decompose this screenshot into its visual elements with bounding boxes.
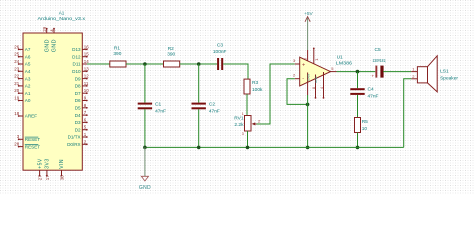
svg-text:47nF: 47nF (155, 108, 166, 114)
wire R1 to R2 (126, 63, 164, 65)
A1 left pin names (25, 47, 41, 149)
svg-text:47nF: 47nF (209, 108, 220, 114)
svg-text:1: 1 (242, 112, 244, 116)
svg-text:D9: D9 (75, 76, 81, 81)
wire R3 to RV1 (246, 94, 248, 116)
svg-text:RV1: RV1 (234, 115, 244, 121)
svg-text:18: 18 (14, 111, 19, 116)
svg-text:12: 12 (84, 74, 89, 79)
capacitor C3 (213, 42, 227, 70)
svg-text:390: 390 (113, 51, 121, 57)
svg-text:U1: U1 (337, 54, 343, 60)
wire D11 to R1 (87, 63, 110, 65)
svg-text:30: 30 (59, 175, 64, 180)
A1 left pins A7-A0, AREF, RESET, RESET (19, 49, 24, 146)
junction node R5/rail (356, 146, 360, 150)
svg-text:A6: A6 (25, 54, 31, 59)
junction node output/C4/C5 (356, 70, 360, 74)
svg-text:1: 1 (315, 59, 319, 61)
svg-text:D10: D10 (72, 69, 81, 74)
svg-text:10: 10 (362, 126, 368, 132)
svg-text:C2: C2 (209, 102, 215, 108)
svg-text:A0: A0 (25, 98, 31, 103)
svg-text:A1: A1 (59, 10, 65, 15)
svg-text:11: 11 (84, 81, 89, 86)
svg-text:47nF: 47nF (368, 93, 379, 99)
svg-text:LM386: LM386 (336, 60, 353, 66)
speaker LS1 (411, 56, 458, 92)
svg-text:28: 28 (14, 142, 19, 147)
wire ground rail (145, 146, 404, 148)
wire op-amp ground pin to rail (307, 95, 309, 147)
svg-text:D2: D2 (75, 127, 81, 132)
svg-text:D5: D5 (75, 106, 81, 111)
svg-text:RESET: RESET (25, 144, 41, 149)
ground symbol GND (139, 147, 151, 191)
svg-text:GND: GND (314, 76, 318, 84)
svg-text:D8: D8 (75, 84, 81, 89)
svg-text:RESET: RESET (25, 137, 41, 142)
svg-text:A7: A7 (25, 47, 31, 52)
IC A1 Arduino_Nano_v3.x (14, 10, 89, 180)
svg-text:8: 8 (312, 87, 316, 89)
svg-text:29: 29 (42, 26, 47, 31)
wire R5 to rail (357, 133, 359, 148)
capacitor C4 (350, 72, 378, 100)
svg-text:A2: A2 (25, 84, 31, 89)
svg-text:D4: D4 (75, 113, 81, 118)
svg-text:21: 21 (14, 81, 19, 86)
svg-text:Arduino_Nano_v3.x: Arduino_Nano_v3.x (38, 16, 86, 21)
svg-text:R3: R3 (252, 80, 258, 86)
capacitor C1 (138, 64, 166, 147)
capacitor C2 (192, 64, 220, 147)
resistor R2 (164, 46, 180, 67)
svg-text:100nF: 100nF (213, 49, 227, 55)
svg-text:A5: A5 (25, 62, 31, 67)
A1 right pin numbers (84, 44, 89, 144)
svg-text:R2: R2 (168, 46, 174, 52)
svg-text:D7: D7 (75, 91, 81, 96)
svg-text:+: + (372, 74, 375, 79)
power symbol +5V (304, 11, 313, 50)
junction node gnd line / rail (306, 146, 310, 150)
svg-text:C1: C1 (155, 102, 161, 108)
svg-text:D13: D13 (72, 47, 81, 52)
svg-text:15: 15 (84, 52, 89, 57)
svg-text:A4: A4 (25, 69, 31, 74)
svg-text:A3: A3 (25, 76, 31, 81)
svg-text:C3: C3 (217, 42, 223, 48)
svg-text:+5V: +5V (304, 11, 313, 17)
svg-text:16: 16 (84, 44, 89, 49)
svg-text:13: 13 (84, 66, 89, 71)
resistor R3 (244, 79, 263, 94)
svg-text:D3: D3 (75, 120, 81, 125)
junction node inverting loop / gnd line (306, 103, 310, 107)
svg-text:GND: GND (52, 39, 58, 52)
resistor R1 (110, 45, 126, 67)
wire speaker pin2 to ground rail (404, 79, 412, 148)
svg-text:VIN: VIN (59, 159, 65, 169)
wire RV1 wiper to op-amp + input (257, 64, 295, 124)
svg-text:390: 390 (167, 52, 175, 58)
svg-text:2.2k: 2.2k (234, 122, 244, 128)
resistor R5 (355, 118, 369, 133)
svg-text:R1: R1 (114, 45, 120, 51)
junction node RV1/rail (246, 146, 250, 150)
svg-text:+: + (302, 63, 305, 69)
svg-text:4: 4 (320, 87, 324, 89)
A1 right pins D13-D0/RX (82, 49, 87, 144)
svg-text:22: 22 (14, 74, 19, 79)
svg-text:24: 24 (14, 59, 19, 64)
svg-text:25: 25 (14, 52, 19, 57)
A1 top pins GND GND (47, 29, 54, 34)
A1 bottom pins +5V 3V3 VIN (40, 170, 62, 176)
svg-text:C4: C4 (368, 87, 374, 93)
svg-text:D0/RX: D0/RX (67, 142, 81, 147)
wire C5 to speaker (383, 71, 411, 73)
junction node R2/C3/C2 (197, 62, 201, 66)
junction node C1/rail/GND (143, 146, 147, 150)
wire C4 to R5 (357, 95, 359, 118)
svg-text:D6: D6 (75, 98, 81, 103)
svg-text:10: 10 (84, 88, 89, 93)
svg-text:D1/TX: D1/TX (68, 135, 81, 140)
svg-text:26: 26 (14, 44, 19, 49)
svg-text:6: 6 (304, 58, 308, 60)
A1 right pin names (67, 47, 81, 147)
svg-text:20: 20 (14, 88, 19, 93)
svg-text:GND: GND (44, 39, 50, 52)
svg-text:17: 17 (45, 175, 50, 180)
svg-text:27: 27 (38, 175, 43, 180)
svg-text:3: 3 (242, 132, 244, 136)
svg-text:23: 23 (14, 66, 19, 71)
op-amp U1 LM386 (293, 48, 352, 99)
svg-text:Speaker: Speaker (440, 76, 458, 82)
svg-text:R5: R5 (362, 119, 368, 125)
svg-text:3V3: 3V3 (45, 158, 51, 168)
potentiometer RV1 (234, 112, 261, 136)
A1 left pin numbers (14, 44, 19, 146)
svg-text:220220µ#181;: 220220µ#181; (373, 58, 387, 64)
junction node R1/R2/C1 (143, 62, 147, 66)
wire op-amp inverting input loop to ground (287, 79, 308, 105)
svg-text:+5V: +5V (37, 158, 43, 169)
capacitor C5 polarized (372, 47, 387, 78)
wire op-amp output (337, 71, 376, 73)
svg-text:A1: A1 (25, 91, 31, 96)
wire R2 to C3 (180, 63, 217, 65)
wire RV1 to ground rail (247, 131, 249, 147)
svg-text:D11: D11 (73, 62, 82, 67)
wire C3 to R3 corner (223, 64, 248, 79)
svg-text:LS1: LS1 (440, 68, 449, 74)
junction node C2/rail (197, 146, 201, 150)
svg-text:100k: 100k (252, 87, 263, 93)
svg-text:D12: D12 (72, 54, 81, 59)
svg-text:19: 19 (14, 96, 19, 101)
svg-text:14: 14 (84, 59, 89, 64)
svg-text:-: - (302, 75, 304, 81)
svg-text:C5: C5 (375, 47, 381, 53)
svg-text:AREF: AREF (25, 114, 37, 119)
svg-text:GND: GND (139, 185, 151, 191)
svg-text:GAIN: GAIN (306, 74, 310, 81)
